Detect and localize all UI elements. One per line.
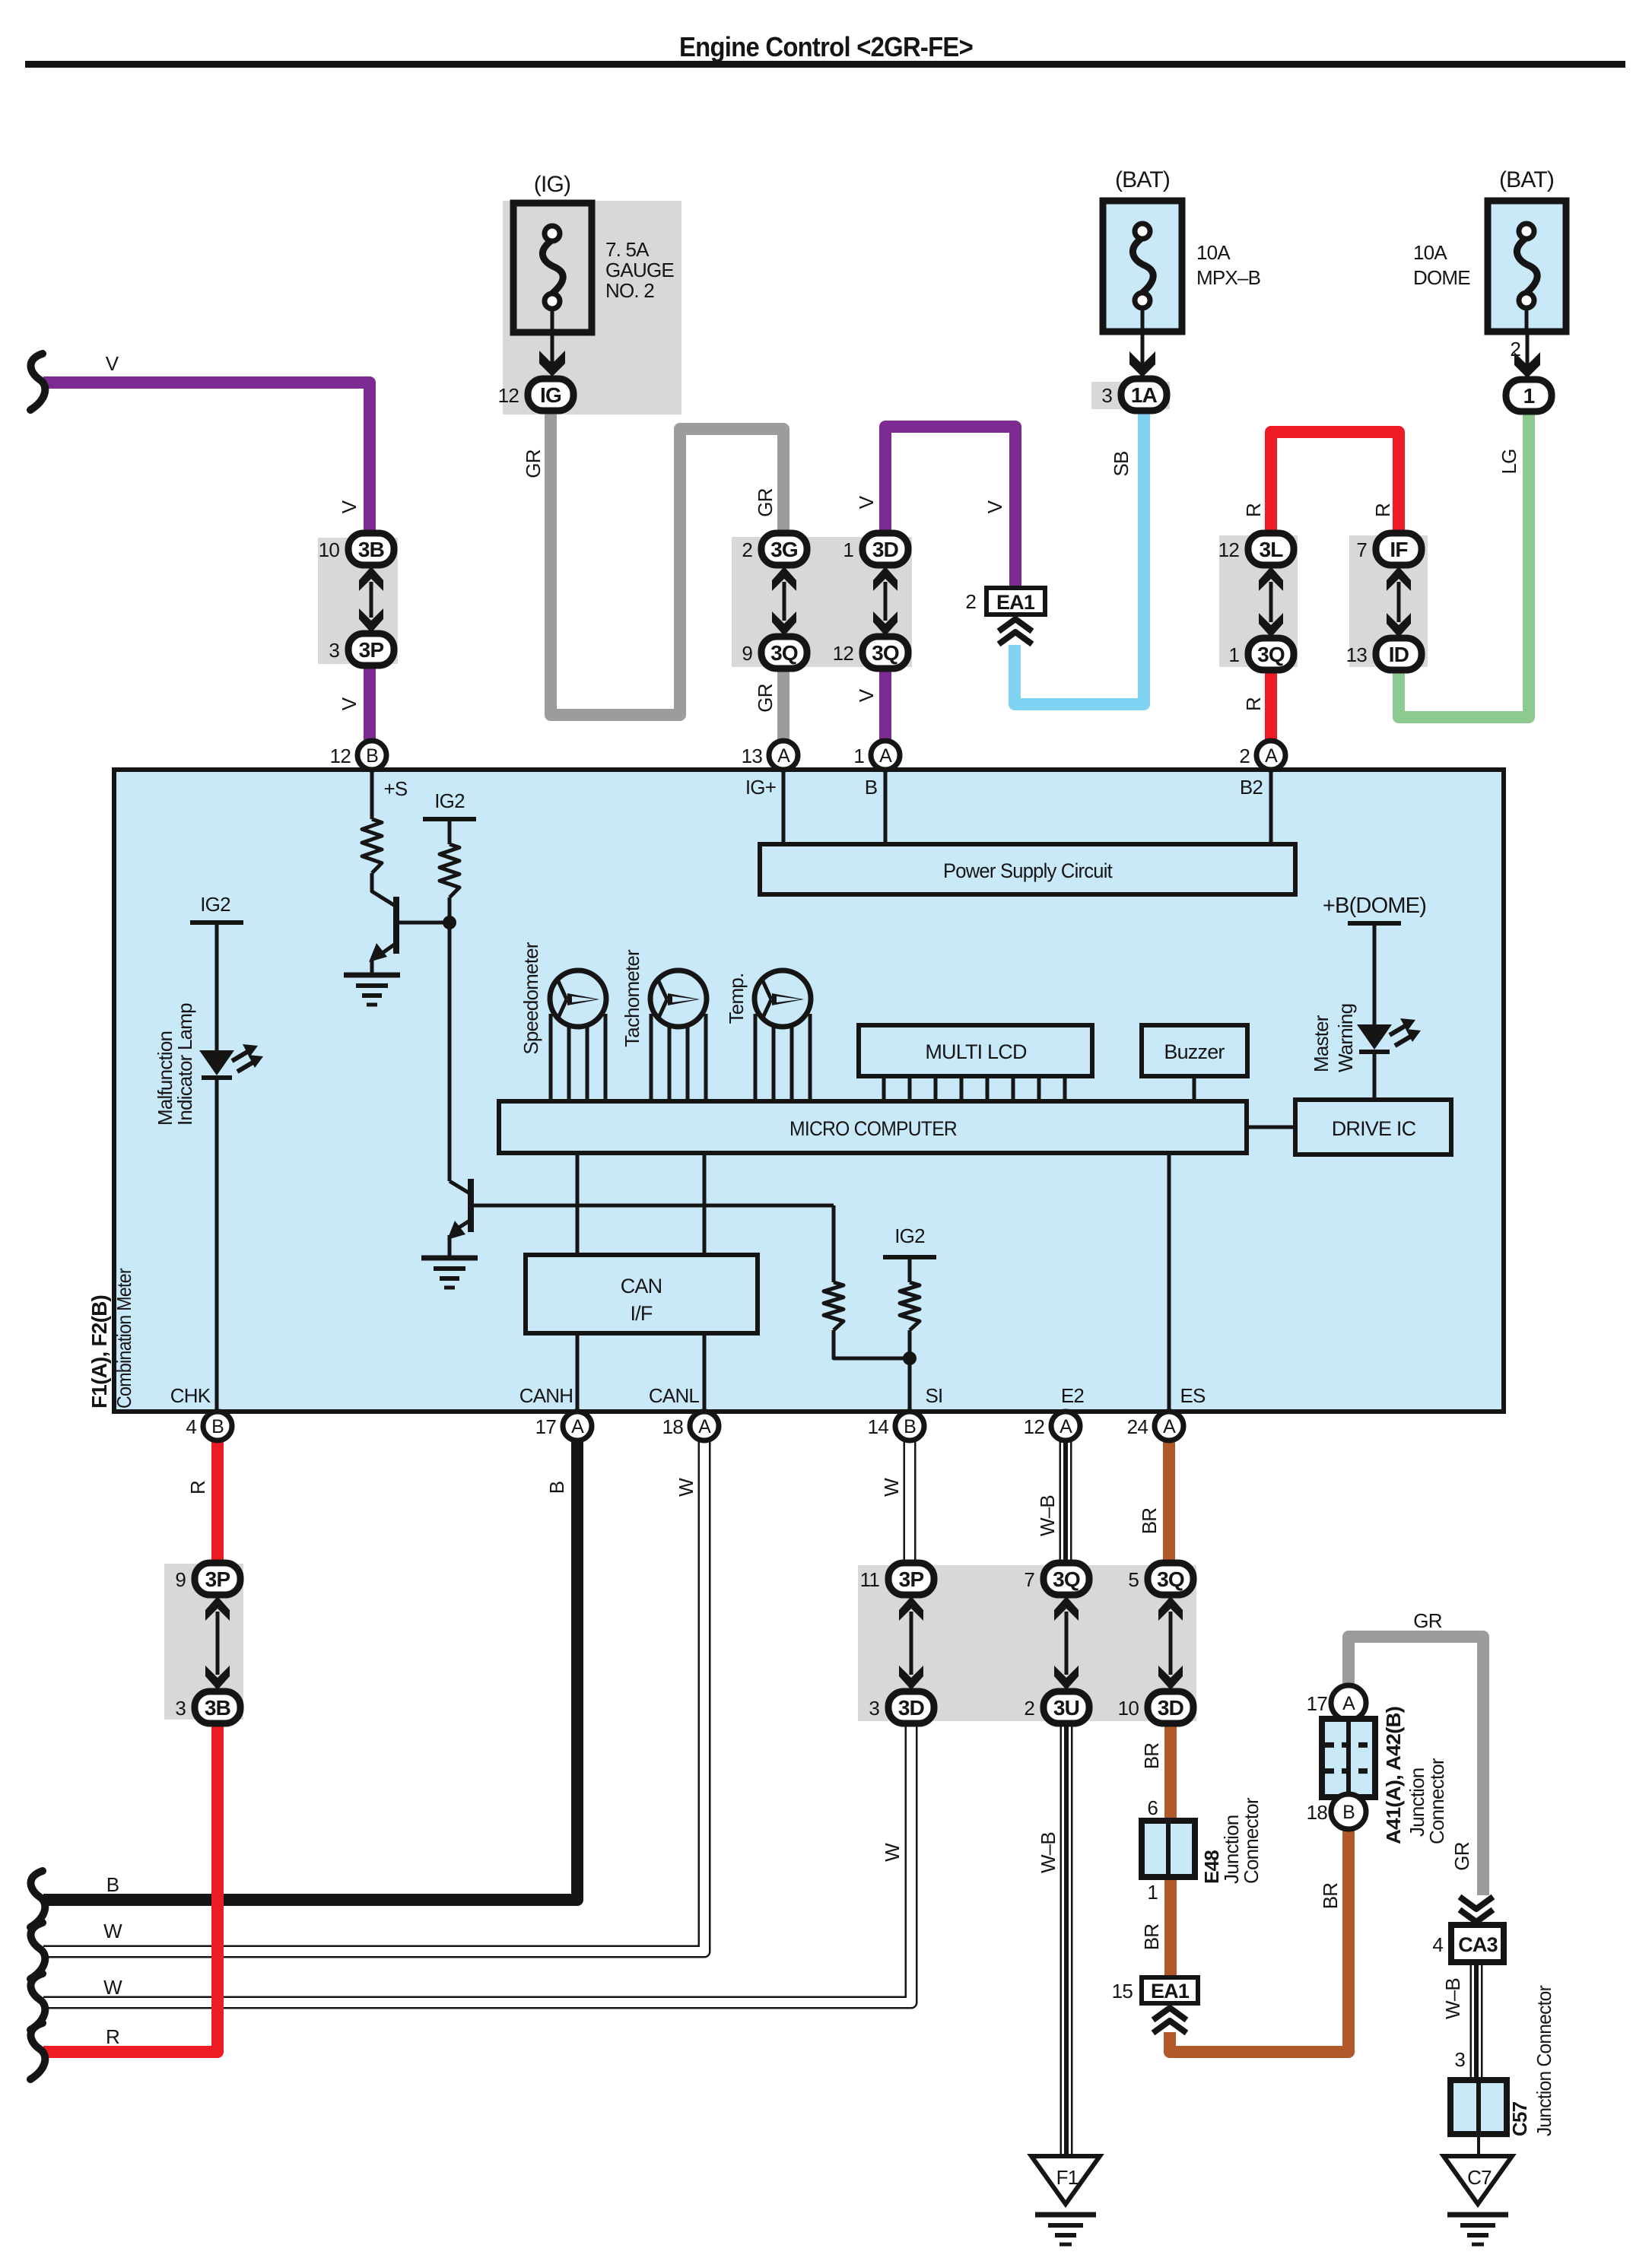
svg-text:Power Supply Circuit: Power Supply Circuit	[943, 859, 1113, 882]
svg-text:V: V	[338, 697, 361, 710]
svg-text:W: W	[103, 1920, 122, 1942]
svg-text:Master: Master	[1310, 1015, 1333, 1072]
svg-text:Combination Meter: Combination Meter	[113, 1268, 135, 1409]
svg-text:17: 17	[1307, 1692, 1328, 1715]
svg-text:IG+: IG+	[745, 776, 776, 799]
svg-text:Engine Control <2GR-FE>: Engine Control <2GR-FE>	[679, 31, 973, 62]
svg-text:W: W	[103, 1976, 122, 1999]
svg-text:MULTI LCD: MULTI LCD	[925, 1040, 1027, 1063]
svg-text:3B: 3B	[205, 1696, 230, 1720]
svg-text:13: 13	[1346, 643, 1368, 666]
svg-text:W–B: W–B	[1037, 1832, 1060, 1873]
svg-text:GR: GR	[1450, 1842, 1473, 1870]
svg-text:SI: SI	[926, 1384, 943, 1407]
svg-text:GR: GR	[754, 488, 777, 516]
svg-text:C7: C7	[1467, 2166, 1492, 2189]
svg-text:1: 1	[1523, 384, 1535, 408]
svg-text:W: W	[675, 1478, 697, 1497]
svg-text:(BAT): (BAT)	[1499, 167, 1554, 192]
svg-text:A: A	[1342, 1693, 1355, 1714]
svg-text:B: B	[865, 776, 878, 799]
svg-text:10A: 10A	[1413, 241, 1447, 264]
svg-text:R: R	[1242, 503, 1265, 517]
svg-text:GR: GR	[754, 684, 777, 712]
svg-text:3Q: 3Q	[1053, 1567, 1080, 1591]
svg-text:12: 12	[498, 384, 519, 407]
svg-text:ID: ID	[1389, 643, 1409, 666]
svg-text:(IG): (IG)	[534, 172, 570, 197]
svg-text:R: R	[106, 2025, 119, 2048]
svg-text:+S: +S	[384, 777, 408, 800]
svg-text:7: 7	[1356, 538, 1367, 561]
svg-text:1: 1	[853, 745, 864, 767]
svg-text:Warning: Warning	[1334, 1004, 1357, 1072]
svg-text:17: 17	[535, 1415, 557, 1438]
svg-text:BR: BR	[1140, 1924, 1163, 1951]
svg-text:CHK: CHK	[170, 1384, 211, 1407]
svg-text:3P: 3P	[899, 1567, 924, 1591]
svg-text:11: 11	[860, 1568, 880, 1591]
svg-text:DRIVE IC: DRIVE IC	[1332, 1117, 1416, 1140]
svg-text:IF: IF	[1390, 538, 1408, 561]
svg-text:2: 2	[965, 590, 976, 613]
svg-text:+B(DOME): +B(DOME)	[1323, 894, 1426, 918]
svg-text:B2: B2	[1240, 776, 1263, 799]
svg-text:V: V	[106, 352, 119, 375]
svg-text:3U: 3U	[1053, 1696, 1079, 1720]
svg-text:V: V	[855, 688, 878, 702]
svg-text:Buzzer: Buzzer	[1164, 1040, 1225, 1063]
svg-text:BR: BR	[1138, 1508, 1161, 1535]
svg-text:R: R	[1371, 503, 1394, 517]
svg-text:I/F: I/F	[630, 1302, 652, 1325]
svg-text:1: 1	[1228, 643, 1239, 666]
svg-text:EA1: EA1	[1151, 1980, 1190, 2003]
svg-text:Indicator Lamp: Indicator Lamp	[173, 1003, 196, 1126]
svg-text:2: 2	[1024, 1697, 1034, 1720]
svg-text:13: 13	[742, 745, 763, 767]
svg-text:6: 6	[1147, 1796, 1158, 1819]
svg-text:3Q: 3Q	[872, 641, 899, 665]
svg-text:3Q: 3Q	[1157, 1567, 1184, 1591]
svg-text:EA1: EA1	[996, 591, 1035, 614]
svg-text:10: 10	[1118, 1697, 1139, 1720]
svg-text:A: A	[1265, 745, 1278, 767]
svg-text:A: A	[698, 1416, 711, 1437]
svg-text:Tachometer: Tachometer	[621, 949, 643, 1047]
svg-text:3P: 3P	[359, 638, 384, 662]
svg-text:V: V	[338, 500, 361, 513]
svg-text:12: 12	[1024, 1415, 1045, 1438]
svg-text:A: A	[879, 745, 892, 767]
svg-text:B: B	[366, 745, 378, 767]
svg-text:R: R	[1242, 697, 1265, 711]
svg-text:12: 12	[330, 745, 351, 767]
svg-text:3G: 3G	[770, 538, 798, 561]
svg-text:BR: BR	[1140, 1743, 1163, 1770]
svg-text:A: A	[1060, 1416, 1072, 1437]
svg-text:CANL: CANL	[649, 1384, 699, 1407]
svg-text:Temp.: Temp.	[725, 973, 748, 1024]
svg-text:A41(A), A42(B): A41(A), A42(B)	[1382, 1707, 1405, 1844]
svg-text:1: 1	[843, 538, 853, 561]
svg-text:NO. 2: NO. 2	[605, 279, 654, 302]
svg-text:CAN: CAN	[621, 1275, 662, 1297]
svg-text:10: 10	[319, 538, 340, 561]
svg-text:18: 18	[1307, 1801, 1328, 1824]
svg-text:A: A	[1163, 1416, 1176, 1437]
svg-text:9: 9	[742, 642, 752, 665]
svg-text:MPX–B: MPX–B	[1196, 266, 1260, 289]
svg-text:E2: E2	[1061, 1384, 1085, 1407]
svg-text:4: 4	[186, 1415, 196, 1438]
svg-text:1: 1	[1147, 1881, 1158, 1904]
svg-text:Connector: Connector	[1425, 1758, 1448, 1844]
svg-text:GR: GR	[522, 449, 545, 478]
svg-text:IG2: IG2	[200, 893, 230, 916]
svg-text:CA3: CA3	[1458, 1933, 1498, 1956]
svg-text:4: 4	[1432, 1933, 1443, 1956]
svg-text:F1(A), F2(B): F1(A), F2(B)	[87, 1295, 111, 1409]
svg-text:5: 5	[1128, 1568, 1139, 1591]
svg-text:W–B: W–B	[1036, 1495, 1059, 1536]
svg-text:3: 3	[869, 1697, 879, 1720]
svg-text:C57: C57	[1508, 2101, 1531, 2136]
svg-text:IG2: IG2	[434, 789, 465, 812]
svg-text:3L: 3L	[1259, 538, 1283, 561]
svg-text:Junction Connector: Junction Connector	[1533, 1985, 1555, 2136]
svg-text:3D: 3D	[898, 1696, 925, 1720]
svg-text:B: B	[106, 1873, 119, 1896]
svg-text:B: B	[545, 1482, 568, 1494]
svg-text:7: 7	[1024, 1568, 1034, 1591]
svg-text:GR: GR	[1413, 1609, 1441, 1632]
svg-text:Connector: Connector	[1240, 1797, 1263, 1884]
svg-text:3P: 3P	[205, 1567, 230, 1591]
svg-text:Speedometer: Speedometer	[519, 942, 542, 1054]
svg-text:V: V	[855, 495, 878, 509]
svg-text:3Q: 3Q	[1257, 643, 1285, 666]
svg-text:3: 3	[175, 1697, 186, 1720]
svg-text:CANH: CANH	[519, 1384, 573, 1407]
svg-text:1A: 1A	[1131, 383, 1158, 407]
svg-text:9: 9	[175, 1568, 186, 1591]
svg-text:7. 5A: 7. 5A	[605, 238, 650, 261]
svg-text:MICRO COMPUTER: MICRO COMPUTER	[789, 1117, 957, 1140]
svg-text:W: W	[881, 1843, 904, 1862]
svg-text:3: 3	[1454, 2048, 1465, 2071]
svg-text:SB: SB	[1110, 451, 1133, 476]
svg-text:3Q: 3Q	[770, 641, 798, 665]
svg-text:IG: IG	[540, 383, 561, 407]
svg-text:B: B	[904, 1416, 916, 1437]
svg-text:A: A	[777, 745, 790, 767]
svg-text:24: 24	[1127, 1415, 1148, 1438]
svg-text:DOME: DOME	[1413, 266, 1470, 289]
svg-text:IG2: IG2	[894, 1224, 925, 1247]
svg-text:B: B	[1342, 1802, 1355, 1823]
svg-text:ES: ES	[1180, 1384, 1206, 1407]
svg-text:12: 12	[833, 642, 854, 665]
svg-text:GAUGE: GAUGE	[605, 259, 674, 281]
svg-text:V: V	[983, 500, 1006, 513]
svg-text:LG: LG	[1498, 449, 1520, 474]
svg-text:W–B: W–B	[1441, 1978, 1464, 2019]
svg-text:3D: 3D	[1158, 1696, 1184, 1720]
svg-text:F1: F1	[1056, 2166, 1079, 2189]
svg-text:10A: 10A	[1196, 241, 1231, 264]
svg-text:2: 2	[742, 538, 752, 561]
svg-text:B: B	[211, 1416, 224, 1437]
svg-text:W: W	[880, 1478, 903, 1497]
svg-text:3: 3	[1101, 384, 1112, 407]
svg-text:12: 12	[1218, 538, 1240, 561]
svg-text:18: 18	[662, 1415, 684, 1438]
svg-text:3D: 3D	[872, 538, 899, 561]
svg-text:2: 2	[1510, 338, 1520, 360]
svg-text:R: R	[186, 1481, 209, 1494]
svg-text:14: 14	[868, 1415, 889, 1438]
svg-text:BR: BR	[1319, 1883, 1342, 1910]
svg-text:2: 2	[1239, 745, 1250, 767]
svg-text:A: A	[571, 1416, 584, 1437]
svg-text:15: 15	[1112, 1980, 1133, 2003]
svg-text:(BAT): (BAT)	[1115, 167, 1170, 192]
svg-text:3B: 3B	[358, 538, 384, 561]
svg-text:3: 3	[329, 639, 339, 662]
